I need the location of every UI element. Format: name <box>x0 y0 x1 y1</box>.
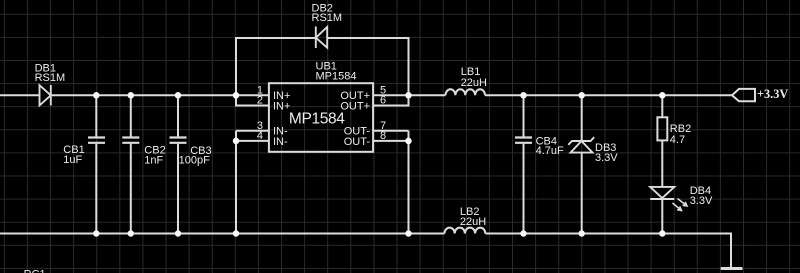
svg-text:1uF: 1uF <box>63 154 82 166</box>
svg-text:100pF: 100pF <box>179 155 210 167</box>
capacitor CB2 <box>122 95 139 233</box>
junction rail-DB3 <box>578 230 585 237</box>
junction rail-pins78 <box>405 230 412 237</box>
svg-text:1nF: 1nF <box>144 155 163 167</box>
svg-text:4: 4 <box>257 130 263 142</box>
svg-text:OUT+: OUT+ <box>340 100 370 112</box>
capacitor CB3 <box>170 95 187 233</box>
op-amp UB1 MP1584 body <box>269 83 373 152</box>
diode DB3 zener <box>568 95 594 233</box>
svg-text:IN+: IN+ <box>273 100 290 112</box>
junction pin4 node <box>233 138 240 145</box>
junction rail-pins34 <box>233 230 240 237</box>
junction rail-CB2 <box>128 230 135 237</box>
diode DB2 <box>316 27 327 49</box>
junction rail-CB3 <box>175 230 182 237</box>
svg-text:22uH: 22uH <box>461 77 487 89</box>
diode DB1 <box>40 85 51 106</box>
wire pin8 stub and down vertical <box>373 131 409 234</box>
svg-text:IN-: IN- <box>273 136 288 148</box>
wire ground rail left of LB2 <box>0 233 445 235</box>
inductor LB1 <box>446 89 486 95</box>
wire input net left segment <box>0 94 40 96</box>
svg-text:RS1M: RS1M <box>35 72 66 84</box>
wire DB2 loop right vertical <box>408 38 410 95</box>
ground bar <box>721 267 743 270</box>
wire DB2 loop left vertical <box>235 38 237 95</box>
junction input-pin1 <box>233 92 240 99</box>
wire DB2 loop top left segment <box>235 37 316 39</box>
capacitor CB4 <box>515 95 532 233</box>
svg-text:2: 2 <box>257 95 263 107</box>
svg-text:OUT-: OUT- <box>344 136 371 148</box>
svg-text:3.3V: 3.3V <box>595 152 618 164</box>
wire pin7 stub <box>373 130 409 132</box>
junction input-CB1 <box>93 92 100 99</box>
diode DB4 LED <box>650 187 687 234</box>
junction rail-CB4 <box>520 230 527 237</box>
junction output-DB3 <box>578 92 585 99</box>
junction pin8 node <box>405 138 412 145</box>
svg-text:+3.3V: +3.3V <box>757 87 788 101</box>
svg-text:RS1M: RS1M <box>312 12 343 24</box>
svg-text:4.7uF: 4.7uF <box>536 145 564 157</box>
resistor RB2 <box>657 95 667 187</box>
wire DB2 loop top right segment <box>327 37 409 39</box>
junction output-CB4 <box>520 92 527 99</box>
wire pin4 stub and down vertical <box>236 131 270 234</box>
wire input net to pin1 <box>51 94 270 96</box>
capacitor CB1 <box>88 95 105 233</box>
junction pin5 node <box>405 92 412 99</box>
wire pin6 stub <box>373 95 409 105</box>
junction input-CB2 <box>128 92 135 99</box>
power port +3.3V <box>732 89 755 101</box>
svg-text:22uH: 22uH <box>460 216 486 228</box>
svg-text:MP1584: MP1584 <box>289 111 345 128</box>
wire ground rail right of LB2 <box>485 234 731 269</box>
junction output-RB2 <box>659 92 666 99</box>
svg-text:4.7: 4.7 <box>670 134 685 146</box>
junction rail-DB4 <box>659 230 666 237</box>
wire pin2 stub <box>236 95 270 105</box>
wire pin5 stub to output <box>373 94 446 96</box>
svg-text:3.3V: 3.3V <box>690 195 713 207</box>
wire pin3 stub <box>236 130 270 132</box>
junction input-CB3 <box>175 92 182 99</box>
inductor LB2 <box>445 228 486 234</box>
svg-text:RC1: RC1 <box>24 269 46 273</box>
wire output net to power port <box>485 94 732 96</box>
junction rail-CB1 <box>93 230 100 237</box>
svg-text:MP1584: MP1584 <box>316 70 357 82</box>
